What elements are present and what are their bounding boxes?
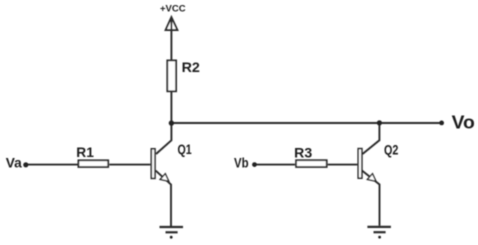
svg-text:R2: R2 [182,59,201,75]
svg-text:+VCC: +VCC [160,4,186,15]
transistor Q2 [358,123,379,226]
transistor Q1 [151,123,171,227]
resistor R3 [296,160,327,167]
svg-text:R3: R3 [294,144,312,160]
wire R3 to Q2 base [328,164,358,166]
input terminal dot Vb [252,162,257,167]
output terminal dot Vo [439,121,444,126]
wire output bus to Vo [171,122,441,124]
svg-text:Q2: Q2 [384,141,399,157]
input terminal dot Va [23,162,28,167]
wire Vb to R3 [255,164,296,166]
svg-text:Vo: Vo [452,111,475,132]
ground (Q2 emitter) [367,227,391,239]
wire Va to R1 [26,164,78,166]
svg-text:Vb: Vb [234,155,249,171]
svg-text:R1: R1 [76,144,94,160]
svg-text:Q1: Q1 [178,141,192,157]
svg-text:Va: Va [6,154,22,170]
resistor R2 [167,60,176,91]
node junction dot R2/Q1 collector [169,120,174,125]
wire R1 to Q1 base [109,164,150,166]
power +VCC arrow symbol [166,17,178,60]
wire R2 to collector node [170,91,172,123]
resistor R1 [78,160,108,167]
ground (Q1 emitter) [160,227,184,239]
node junction dot Q2 collector [377,120,382,125]
